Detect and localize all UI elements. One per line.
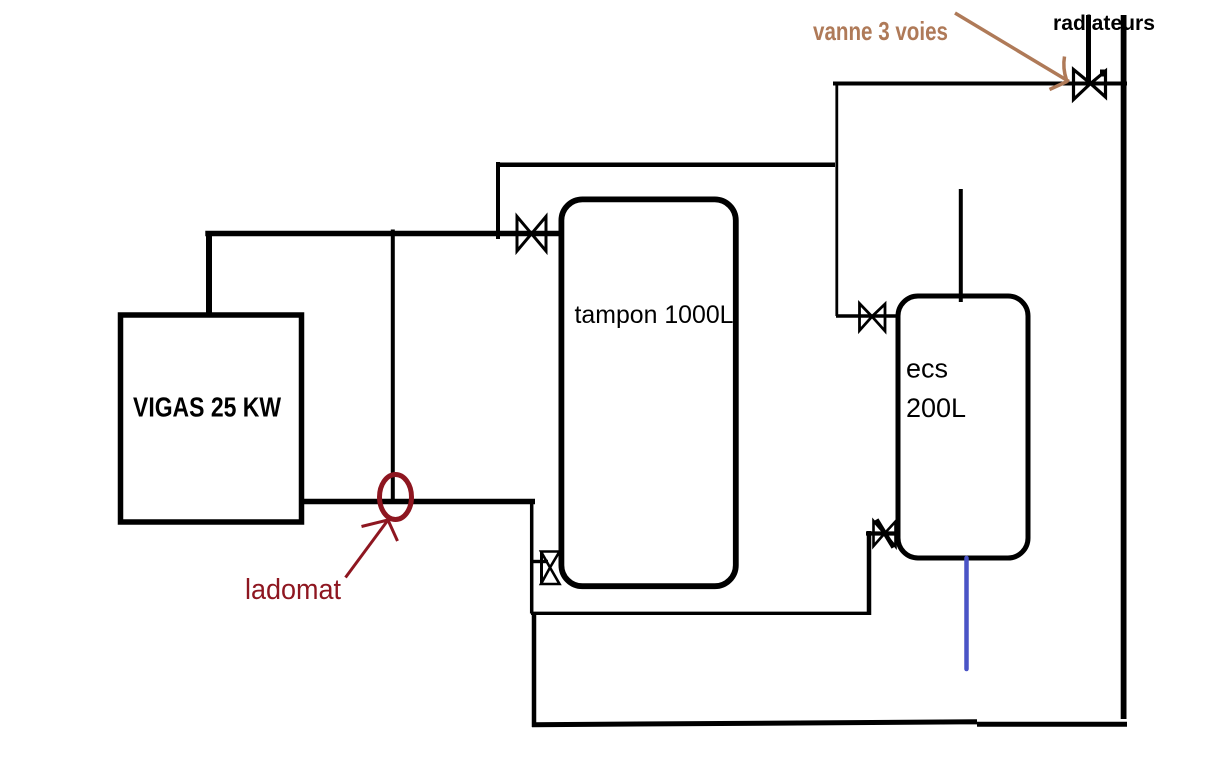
svg-text:vanne 3 voies: vanne 3 voies (813, 16, 948, 46)
svg-text:radiateurs: radiateurs (1053, 12, 1155, 35)
svg-text:ladomat: ladomat (245, 574, 341, 606)
svg-text:ecs: ecs (906, 354, 948, 384)
svg-text:200L: 200L (906, 393, 966, 423)
svg-text:VIGAS 25 KW: VIGAS 25 KW (133, 392, 281, 423)
svg-text:tampon 1000L: tampon 1000L (575, 301, 734, 329)
